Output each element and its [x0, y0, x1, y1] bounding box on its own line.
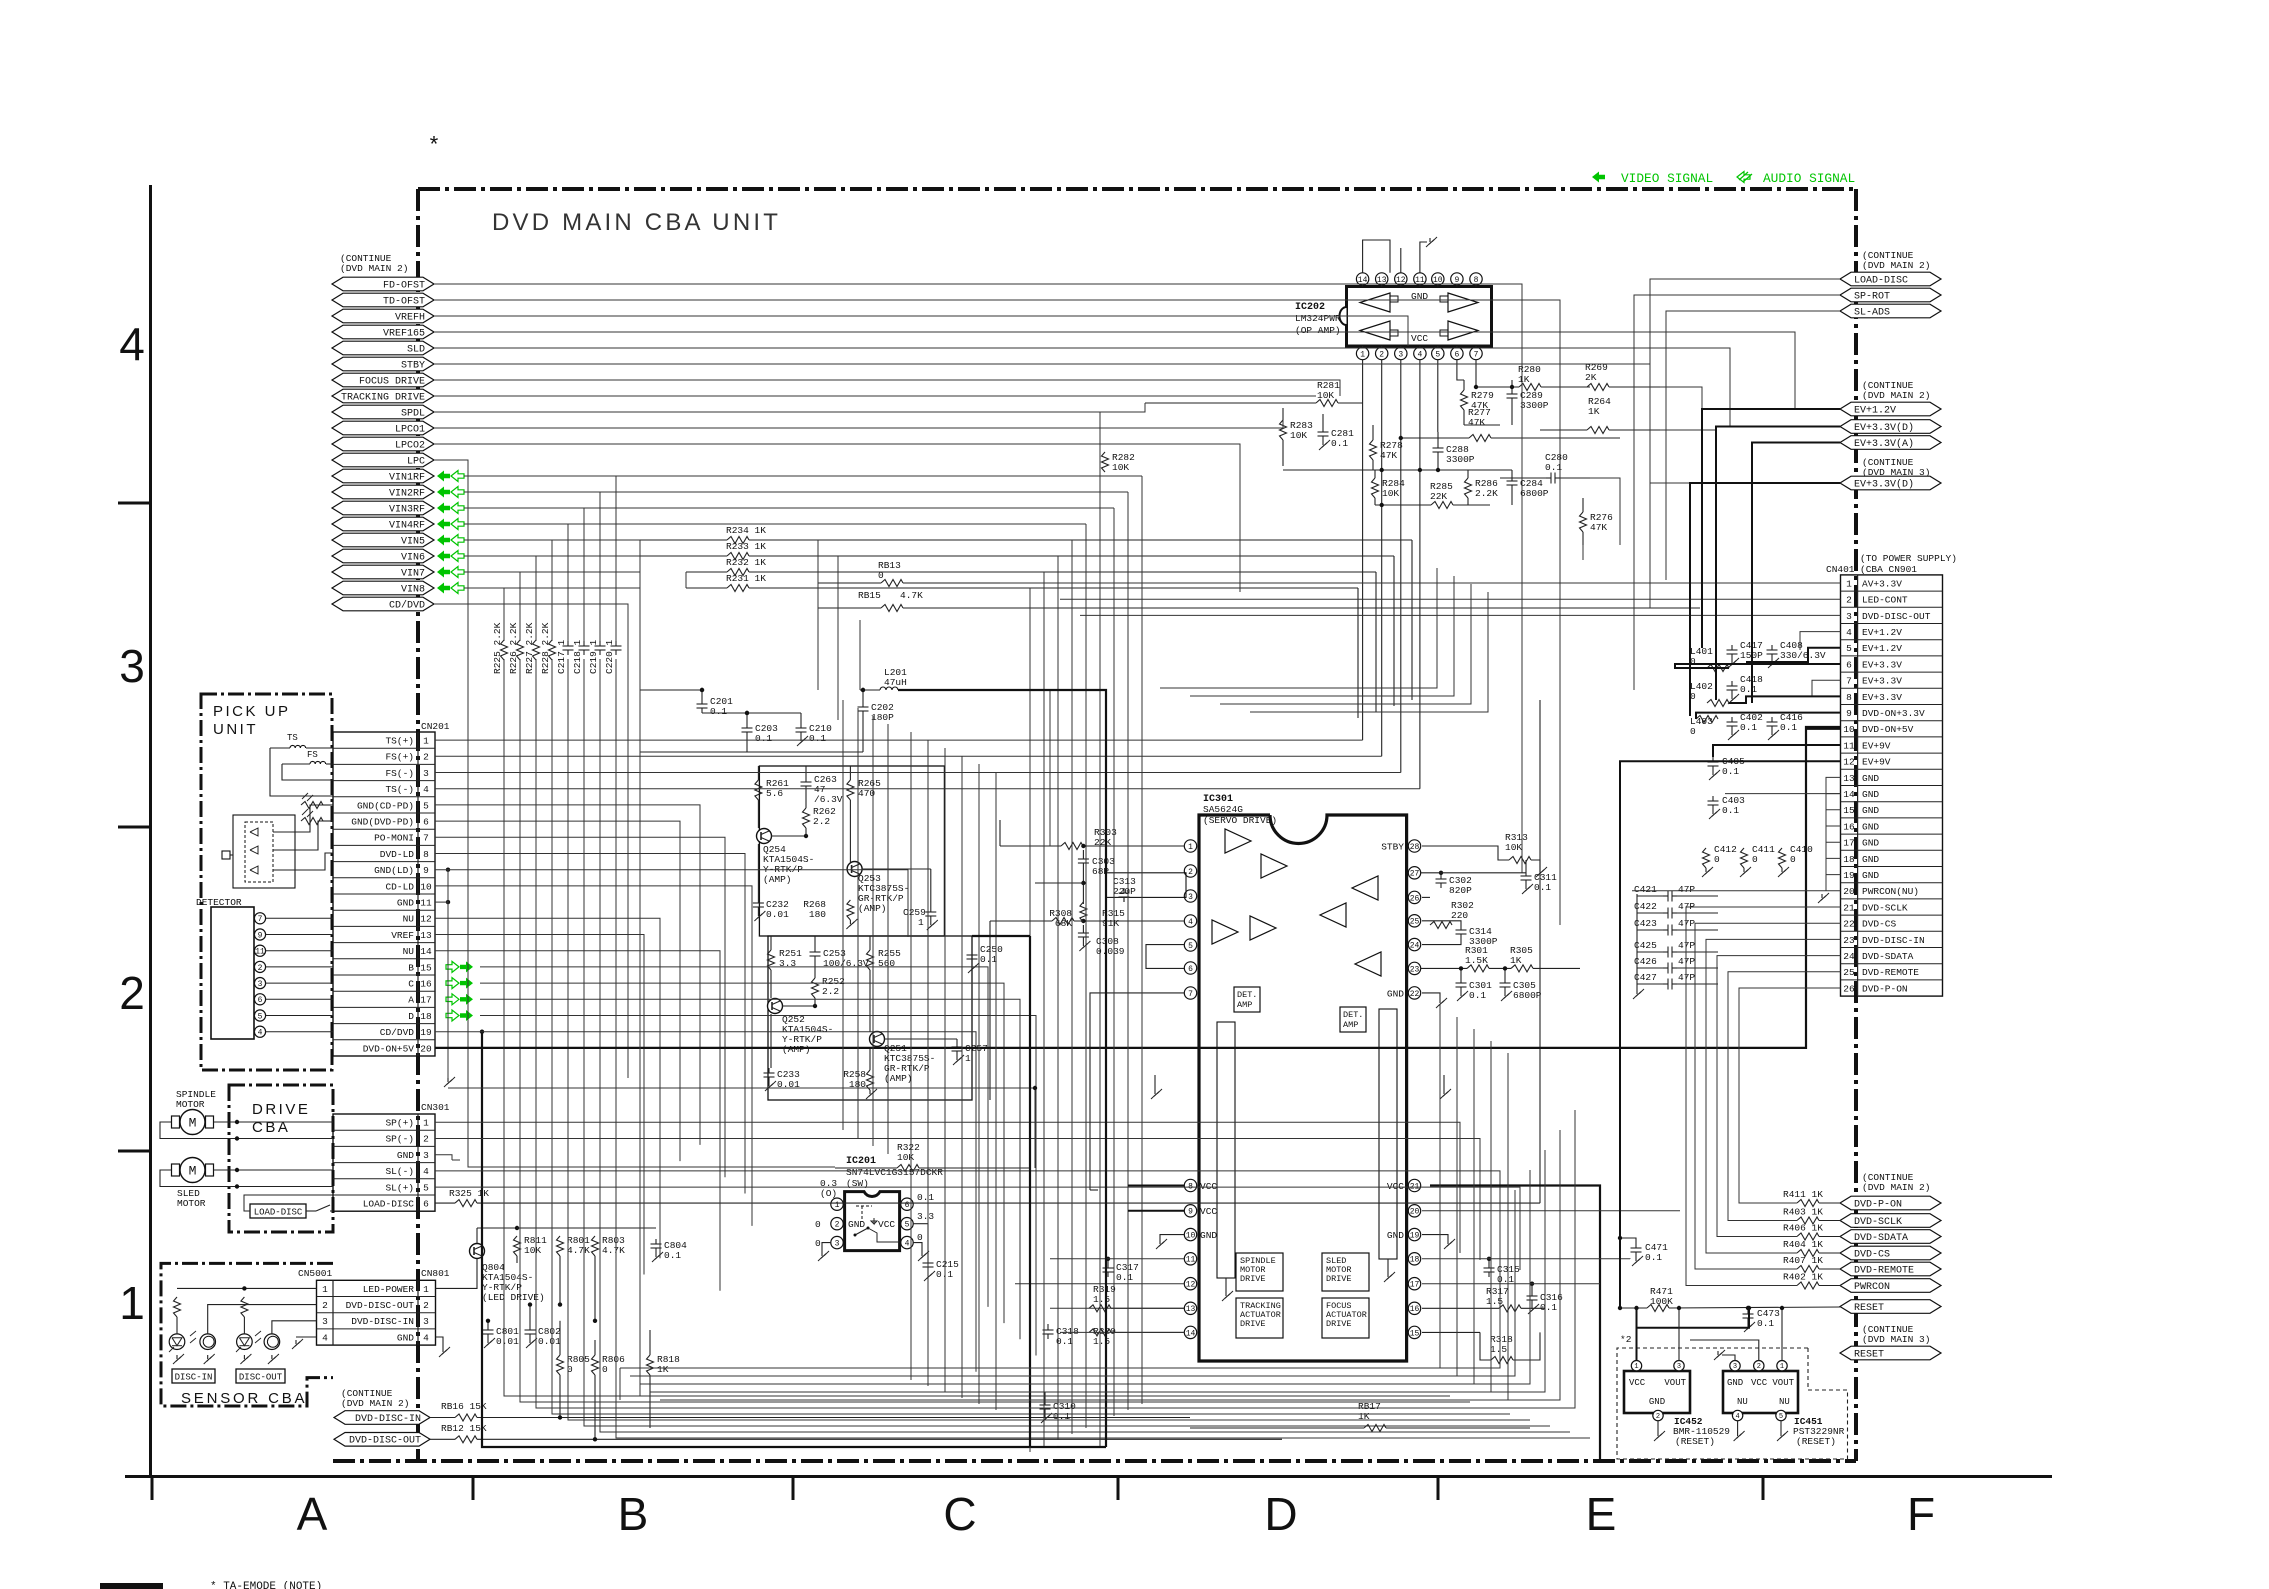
svg-text:2K: 2K [1585, 372, 1597, 383]
IC202 box [1340, 287, 1492, 347]
svg-text:DRIVE: DRIVE [252, 1101, 310, 1118]
svg-text:EV+1.2V: EV+1.2V [1862, 627, 1902, 638]
resistor R277 47K [1400, 407, 1620, 442]
IC301 det amp 2 [1340, 1007, 1366, 1032]
IC301 inner gnd right [1384, 1259, 1395, 1282]
svg-text:1: 1 [119, 1277, 145, 1329]
resistor R234 1K [640, 525, 1412, 700]
svg-text:CN801: CN801 [421, 1268, 450, 1279]
IC301 pin 17 [1408, 1278, 1420, 1290]
svg-text:10K: 10K [1505, 842, 1522, 853]
flag RESET 2 [1840, 1346, 1941, 1360]
capacitor C311 0.1 [1521, 860, 1558, 894]
svg-text:0: 0 [1790, 854, 1796, 865]
svg-text:18: 18 [420, 1011, 432, 1022]
IC301 label [1203, 794, 1277, 826]
svg-text:SP(+): SP(+) [385, 1118, 414, 1129]
IC301 tracking drive box [1236, 1298, 1283, 1338]
IC202 pin 13 [1376, 273, 1388, 287]
svg-text:25: 25 [1843, 967, 1855, 978]
svg-text:4: 4 [322, 1332, 328, 1343]
IC301 pin 18 [1408, 1253, 1420, 1265]
svg-text:47P: 47P [1678, 884, 1695, 895]
svg-text:8: 8 [423, 849, 429, 860]
component R228 2.2K [540, 622, 556, 674]
resistor R806 0 [592, 1340, 626, 1442]
left flag SPDL [332, 405, 434, 419]
left flag LPCO2 [332, 437, 434, 451]
svg-text:6: 6 [905, 1201, 910, 1210]
svg-text:GND: GND [1862, 821, 1879, 832]
svg-text:0.1: 0.1 [1740, 722, 1757, 733]
svg-text:DVD-DISC-OUT: DVD-DISC-OUT [349, 1436, 421, 1447]
svg-text:DRIVE: DRIVE [1240, 1319, 1266, 1329]
svg-text:VIN7: VIN7 [401, 568, 425, 579]
svg-text:1.5K: 1.5K [1465, 955, 1488, 966]
svg-text:CN5001: CN5001 [298, 1268, 333, 1279]
left flag VIN5 [332, 533, 434, 547]
svg-text:SL(-): SL(-) [385, 1166, 414, 1177]
resistor R252 2.2 [812, 976, 846, 998]
svg-text:13: 13 [420, 930, 432, 941]
svg-text:10: 10 [1843, 724, 1855, 735]
svg-text:1K: 1K [1510, 955, 1522, 966]
svg-text:CD/DVD: CD/DVD [380, 1027, 415, 1038]
svg-text:TS(-): TS(-) [385, 784, 414, 795]
legend AUDIO SIGNAL [1763, 171, 1855, 186]
svg-text:(OP AMP): (OP AMP) [1295, 325, 1341, 336]
left flag CD/DVD [332, 597, 434, 611]
svg-text:6: 6 [423, 1199, 429, 1210]
svg-text:4.7K: 4.7K [567, 1245, 590, 1256]
flag EV+3.3V(D) 2 [1840, 476, 1941, 490]
amp group 2 wires [771, 936, 957, 1070]
resistor RB12 15K [430, 1423, 1282, 1443]
svg-text:3: 3 [423, 1316, 429, 1327]
capacitor C402 0.1 [1727, 712, 1764, 740]
svg-text:EV+9V: EV+9V [1862, 740, 1891, 751]
svg-text:GND: GND [1862, 870, 1879, 881]
svg-text:DVD-DISC-IN: DVD-DISC-IN [355, 1414, 421, 1425]
svg-text:LPCO1: LPCO1 [395, 424, 425, 435]
svg-text:M: M [189, 1164, 197, 1179]
legend VIDEO SIGNAL [1621, 171, 1713, 186]
transistor Q804 [470, 1244, 485, 1259]
svg-text:3: 3 [258, 980, 263, 989]
green arrow VIN4 [437, 519, 464, 530]
svg-text:R232 1K: R232 1K [726, 557, 766, 568]
svg-text:R325 1K: R325 1K [449, 1188, 489, 1199]
IC301 pin 3 [1184, 890, 1197, 902]
capacitor C308 0.039 [1078, 925, 1125, 957]
border left tick 2/1 [118, 1150, 150, 1153]
capacitor C203 0.1 [742, 713, 779, 752]
svg-text:R225 2.2K: R225 2.2K [492, 622, 503, 674]
capacitor C289 3300P [1507, 380, 1549, 425]
resistor R305 1K [1489, 945, 1580, 972]
svg-text:25: 25 [1410, 918, 1420, 927]
continue note rb2 [1862, 1324, 1930, 1345]
IC201 VCC text [878, 1219, 895, 1230]
svg-text:0.1: 0.1 [1534, 882, 1551, 893]
svg-text:VIN3RF: VIN3RF [389, 504, 425, 515]
Q253 label [858, 873, 909, 914]
IC301 pin 19 [1408, 1228, 1420, 1240]
svg-text:SPDL: SPDL [401, 408, 425, 419]
svg-text:SA5624G: SA5624G [1203, 804, 1243, 815]
resistor R801 4.7K [557, 1235, 591, 1256]
IC201 pin4 gnd [913, 1243, 929, 1261]
capacitor C257 1 [952, 1042, 988, 1065]
svg-text:R402 1K: R402 1K [1783, 1272, 1823, 1283]
svg-text:2.2K: 2.2K [1475, 488, 1498, 499]
IC201 pin 4 [901, 1236, 913, 1248]
left flag FOCUS DRIVE [332, 373, 434, 387]
IC301 pin 11 [1184, 1253, 1196, 1265]
IC202 label [1295, 302, 1341, 336]
resistor R281 10K [1145, 380, 1363, 407]
capacitor C315 0.1 [1484, 1257, 1521, 1285]
column label D [1264, 1488, 1297, 1540]
svg-text:3: 3 [423, 768, 429, 779]
svg-text:C217 1: C217 1 [556, 639, 567, 674]
IC202 opamp B [1360, 321, 1398, 340]
resistor R258 180 [843, 1069, 877, 1099]
svg-text:GND: GND [848, 1219, 865, 1230]
continue note sensor [341, 1388, 409, 1409]
svg-text:5: 5 [258, 1012, 263, 1021]
svg-text:22K: 22K [1430, 491, 1447, 502]
svg-text:R404 1K: R404 1K [1783, 1239, 1823, 1250]
svg-text:10K: 10K [1382, 488, 1399, 499]
svg-text:0.1: 0.1 [1056, 1336, 1073, 1347]
svg-text:2: 2 [322, 1300, 328, 1311]
svg-text:24: 24 [1410, 941, 1420, 950]
photodiode outer box [233, 815, 295, 888]
border left tick 3/2 [118, 826, 150, 829]
svg-text:1K: 1K [657, 1364, 669, 1375]
svg-text:* TA-EMODE (NOTE): * TA-EMODE (NOTE) [210, 1581, 322, 1589]
svg-text:RESET: RESET [1854, 1303, 1884, 1314]
svg-text:180: 180 [809, 909, 826, 920]
svg-text:13: 13 [1186, 1305, 1196, 1314]
svg-text:6: 6 [1846, 659, 1852, 670]
svg-text:D: D [1264, 1488, 1297, 1540]
green arrow VIN1 [437, 471, 464, 482]
IC301 sled drive box [1322, 1253, 1369, 1291]
IC301 pin 27 [1408, 867, 1420, 879]
flag DVD-REMOTE [1840, 1262, 1941, 1276]
svg-text:47P: 47P [1678, 940, 1695, 951]
border left axis line [149, 185, 152, 1477]
IC301 pin 1 [1184, 840, 1197, 852]
svg-text:RB12 15K: RB12 15K [441, 1423, 487, 1434]
IC301 pin 12 [1184, 1278, 1196, 1290]
svg-text:DET.: DET. [1343, 1010, 1363, 1020]
capacitor C232 0.01 [753, 898, 789, 921]
svg-text:6800P: 6800P [1520, 488, 1549, 499]
pickup wiring TS FS [270, 748, 333, 796]
Q251 label [884, 1043, 935, 1084]
detector pin 7 [254, 913, 333, 924]
sensor photo DISC-OUT [255, 1321, 280, 1364]
svg-text:0.1: 0.1 [1540, 1302, 1557, 1313]
svg-text:0.1: 0.1 [755, 733, 772, 744]
svg-text:SN74LVC1G3157DCKR: SN74LVC1G3157DCKR [846, 1167, 943, 1178]
svg-text:3: 3 [835, 1239, 840, 1248]
left flag VREF165 [332, 325, 434, 339]
svg-text:1: 1 [1846, 578, 1852, 589]
svg-text:1.5: 1.5 [1093, 1294, 1110, 1305]
pick up unit dashed box [201, 694, 332, 1070]
resistor R402 1K [1783, 1272, 1841, 1290]
capacitor C405 0.1 [1708, 756, 1746, 780]
photodiode wires [273, 805, 333, 870]
svg-text:12: 12 [1186, 1281, 1196, 1290]
svg-text:4: 4 [423, 784, 429, 795]
IC301 pin 7 [1184, 987, 1197, 999]
border bottom axis line [125, 1475, 2052, 1478]
resistor R325 1K [435, 700, 1540, 1207]
svg-text:VIN1RF: VIN1RF [389, 472, 425, 483]
svg-text:5: 5 [1779, 1413, 1783, 1421]
resistor R315 91K [1080, 902, 1125, 929]
IC202 pin 8 [1470, 273, 1482, 287]
svg-text:(TO POWER SUPPLY): (TO POWER SUPPLY) [1860, 553, 1957, 564]
svg-text:DVD MAIN CBA UNIT: DVD MAIN CBA UNIT [492, 209, 781, 236]
green arrow VIN5 [437, 535, 464, 546]
caps ground rail [1633, 894, 1644, 999]
svg-text:5: 5 [423, 1182, 429, 1193]
component C218 1 [572, 639, 590, 674]
svg-text:GND(CD-PD): GND(CD-PD) [357, 800, 414, 811]
cluster wires [640, 690, 863, 752]
resistor R471 100K [1618, 1286, 1841, 1312]
svg-text:VCC: VCC [1200, 1181, 1217, 1192]
capacitor C418 0.1 [1727, 674, 1764, 704]
capacitor C302 820P [1436, 871, 1473, 896]
IC202 pin 2 [1376, 346, 1388, 360]
asterisk mark [427, 134, 440, 159]
svg-text:820P: 820P [1449, 885, 1472, 896]
IC301 pin 20 [1408, 1205, 1420, 1217]
photo resistor arrows 1 [301, 793, 333, 809]
svg-text:0.1: 0.1 [809, 733, 826, 744]
continue note top-left [340, 253, 408, 274]
svg-text:2: 2 [258, 964, 263, 973]
svg-text:3: 3 [322, 1316, 328, 1327]
svg-text:15: 15 [1410, 1329, 1420, 1338]
svg-text:0.1: 0.1 [664, 1250, 681, 1261]
svg-text:A: A [408, 995, 414, 1006]
svg-text:LED-CONT: LED-CONT [1862, 595, 1908, 606]
IC301 opamp t2 [1261, 854, 1287, 878]
svg-text:18: 18 [1410, 1256, 1420, 1265]
svg-text:VIN2RF: VIN2RF [389, 488, 425, 499]
svg-text:E: E [1586, 1488, 1617, 1540]
svg-text:0.1: 0.1 [710, 706, 727, 717]
svg-text:AUDIO SIGNAL: AUDIO SIGNAL [1763, 171, 1855, 186]
capacitor C301 0.1 [1456, 966, 1493, 1001]
svg-text:2: 2 [1846, 595, 1852, 606]
svg-text:R411 1K: R411 1K [1783, 1189, 1823, 1200]
IC452 pin3 [1674, 1361, 1684, 1372]
svg-text:0: 0 [602, 1364, 608, 1375]
svg-text:VIN5: VIN5 [401, 536, 425, 547]
svg-text:19: 19 [1410, 1231, 1420, 1240]
svg-text:5: 5 [905, 1221, 910, 1230]
resistor R403 1K [1783, 1207, 1841, 1225]
flag EV+1.2V [1840, 402, 1941, 416]
svg-text:24: 24 [1843, 951, 1855, 962]
IC202 pin 10 [1432, 273, 1444, 287]
svg-text:4: 4 [119, 318, 145, 370]
svg-text:1: 1 [965, 1053, 971, 1064]
svg-text:2: 2 [119, 967, 145, 1019]
svg-text:27: 27 [1410, 870, 1420, 879]
svg-text:LED-POWER: LED-POWER [363, 1284, 415, 1295]
capacitor C305 6800P [1500, 966, 1542, 1001]
IC301 pin 14 [1184, 1326, 1196, 1338]
IC301 pin 4 [1184, 915, 1197, 927]
capacitor C316 0.1 [1527, 1282, 1564, 1315]
load-disc switch [244, 1195, 333, 1211]
left flag VIN1RF [332, 469, 434, 483]
coil FS [282, 750, 333, 764]
svg-text:FS: FS [307, 750, 318, 760]
svg-text:GND: GND [1387, 988, 1404, 999]
svg-text:2: 2 [423, 1300, 429, 1311]
svg-text:6: 6 [1454, 350, 1459, 359]
svg-text:DVD-SCLK: DVD-SCLK [1862, 902, 1908, 913]
svg-text:47P: 47P [1678, 956, 1695, 967]
inductor L402 [1690, 681, 1729, 707]
svg-text:VIN4RF: VIN4RF [389, 520, 425, 531]
IC202 top hooks [1363, 240, 1401, 273]
svg-text:3300P: 3300P [1446, 454, 1475, 465]
svg-text:R226 2.2K: R226 2.2K [508, 622, 519, 674]
svg-text:RESET: RESET [1854, 1349, 1884, 1360]
svg-text:SLD: SLD [407, 344, 425, 355]
resistor R269 2K [1585, 362, 1660, 391]
resistor R282 10K [1102, 452, 1136, 473]
IC452 label [1673, 1416, 1730, 1447]
IC301 pin 5 [1184, 939, 1197, 951]
IC301 opamp t6 [1352, 876, 1378, 900]
svg-text:17: 17 [1843, 838, 1854, 849]
capacitor C281 0.1 [1318, 414, 1355, 450]
svg-text:3: 3 [119, 640, 145, 692]
svg-text:1: 1 [322, 1284, 328, 1295]
svg-text:GND(LD): GND(LD) [374, 865, 414, 876]
svg-text:47K: 47K [1590, 522, 1607, 533]
capacitor C802 0.01 [525, 1302, 562, 1348]
IC301 outside gnd right [1440, 1075, 1451, 1099]
capacitor C280 0.1 [1500, 452, 1590, 484]
IC301 pin 6 [1184, 962, 1197, 974]
resistor R265 470 [847, 778, 881, 800]
IC301 det amp 1 [1234, 987, 1260, 1012]
junction dots [700, 688, 1037, 1090]
svg-text:STBY: STBY [1381, 841, 1404, 852]
svg-text:GND: GND [1862, 838, 1879, 849]
flag DVD-SCLK [1840, 1214, 1941, 1228]
svg-text:VOUT: VOUT [1772, 1378, 1794, 1388]
svg-text:PO-MONI: PO-MONI [374, 833, 414, 844]
svg-text:AMP: AMP [1343, 1020, 1358, 1030]
wire maze bundle [434, 279, 1841, 1460]
svg-text:23: 23 [1410, 965, 1420, 974]
CN401 label [1826, 564, 1855, 575]
main unit box bottom edge [333, 1459, 1856, 1463]
svg-text:AV+3.3V: AV+3.3V [1862, 578, 1902, 589]
component C220 1 [604, 639, 622, 674]
svg-text:B: B [618, 1488, 649, 1540]
svg-text:0.1: 0.1 [1722, 805, 1739, 816]
detector pin 11 [254, 945, 333, 956]
svg-text:1.5: 1.5 [1490, 1344, 1507, 1355]
IC301 focus drive box [1322, 1298, 1369, 1338]
resistor R231 1K [686, 573, 1358, 718]
capacitor C250 0.1 [967, 944, 1004, 973]
svg-text:0: 0 [815, 1238, 821, 1249]
svg-text:LPC: LPC [407, 456, 425, 467]
IC301 pin10 gnd [1156, 1235, 1184, 1249]
IC202 pin 9 [1451, 273, 1463, 287]
svg-text:100K: 100K [1650, 1296, 1673, 1307]
row label 3 [119, 640, 145, 692]
svg-text:VREF165: VREF165 [383, 328, 425, 339]
svg-text:0.1: 0.1 [1116, 1272, 1133, 1283]
svg-text:12: 12 [1843, 757, 1855, 768]
svg-text:4: 4 [1735, 1413, 1739, 1421]
svg-text:0: 0 [1690, 726, 1696, 737]
photodiode D2 [250, 846, 258, 854]
detector label [196, 897, 242, 908]
drive cba label [252, 1101, 310, 1136]
svg-text:(AMP): (AMP) [763, 874, 792, 885]
svg-text:F: F [1907, 1488, 1935, 1540]
svg-text:47K: 47K [1380, 450, 1397, 461]
svg-text:7: 7 [1846, 676, 1852, 687]
CN801 label [421, 1268, 450, 1279]
capacitor C801 0.01 [483, 1319, 520, 1348]
svg-text:0: 0 [1752, 854, 1758, 865]
main unit box right edge [1854, 189, 1858, 1461]
svg-text:EV+1.2V: EV+1.2V [1854, 405, 1896, 416]
capacitor C473 0.1 [1743, 1306, 1781, 1332]
IC301 pin 9 [1184, 1205, 1196, 1217]
IC452 pin2 [1653, 1410, 1665, 1441]
resistor RB16 15K [430, 1401, 1190, 1421]
sensor led DISC-IN [169, 1317, 185, 1364]
IC301 inner rect right [1379, 1009, 1397, 1259]
svg-text:DVD-REMOTE: DVD-REMOTE [1862, 967, 1919, 978]
component C217 1 [556, 639, 574, 674]
resistor R404 1K [1783, 1239, 1841, 1257]
svg-text:9: 9 [423, 865, 429, 876]
svg-text:VCC: VCC [1411, 333, 1428, 344]
sensor cba label [181, 1390, 307, 1407]
resistor R233 1K [640, 541, 1394, 706]
capacitor C425 47P [1634, 940, 1718, 958]
svg-text:0.1: 0.1 [1722, 766, 1739, 777]
IC301 inner gnd left [1222, 1278, 1233, 1301]
component R225 2.2K [492, 622, 508, 674]
svg-text:3: 3 [1677, 1363, 1681, 1371]
photodiode D3 [250, 866, 258, 874]
svg-text:C: C [943, 1488, 976, 1540]
